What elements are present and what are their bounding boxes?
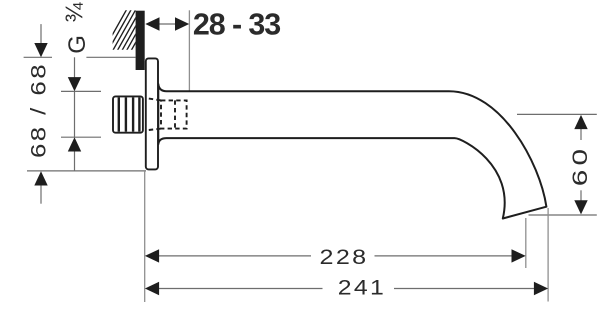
svg-text:28 - 33: 28 - 33 — [193, 8, 280, 42]
svg-text:228: 228 — [320, 245, 369, 269]
svg-text:60: 60 — [568, 145, 592, 187]
svg-text:68 / 68: 68 / 68 — [28, 62, 51, 158]
svg-text:241: 241 — [338, 276, 386, 300]
svg-text:G ¾: G ¾ — [61, 0, 91, 54]
